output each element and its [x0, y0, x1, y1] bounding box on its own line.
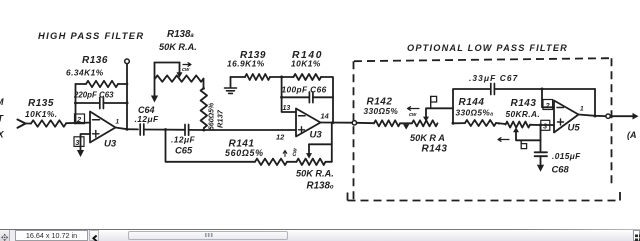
wire C67 row left — [453, 89, 490, 108]
pot R143a wiper arrow — [423, 117, 429, 122]
capacitor C68 plates — [535, 152, 547, 156]
node R139-R140 — [280, 76, 283, 79]
potentiometer R143a — [412, 120, 438, 126]
op-amp U5 triangle — [554, 101, 579, 133]
scrollbar thumb — [128, 231, 288, 241]
svg-text:16.9K1%: 16.9K1% — [227, 59, 265, 69]
svg-text:50K R.A.: 50K R.A. — [296, 169, 334, 179]
svg-text:13: 13 — [283, 105, 291, 112]
dashed box bottom-left corner — [347, 193, 349, 201]
svg-text:330Ω5%: 330Ω5% — [364, 106, 399, 116]
wire C68 to ground — [540, 156, 542, 164]
resistor R136 — [86, 81, 118, 87]
thumb grip — [205, 233, 214, 238]
wire R143b to pin3 — [530, 124, 554, 126]
U3a plus sign — [93, 131, 100, 138]
output node circle LPF — [606, 114, 610, 118]
wire feedback right rail — [126, 64, 128, 130]
svg-text:.12μF: .12μF — [171, 135, 195, 145]
wire C63 right — [103, 102, 127, 104]
pot R138a bracket — [155, 62, 180, 64]
svg-text:R143: R143 — [511, 98, 537, 109]
pot R143b wiper stem+bracket — [516, 132, 541, 140]
wire R135 to U3 pin2 — [66, 122, 90, 125]
svg-text:1: 1 — [580, 106, 584, 113]
wire U3a output — [116, 128, 139, 130]
node after C64 — [164, 128, 167, 131]
capacitor C64 plates — [140, 124, 144, 135]
resistor R141 — [255, 159, 287, 165]
wire C65 to R137 node — [189, 129, 204, 131]
node C63 left — [74, 102, 77, 105]
wire node to U3b plus input — [204, 129, 296, 131]
wire R140 right and down rail — [321, 77, 333, 123]
open terminal circle — [125, 59, 130, 64]
ground arrow C68 — [537, 165, 544, 172]
pin 3 box — [74, 137, 84, 147]
potentiometer R138b — [297, 159, 326, 165]
wire C66 left — [282, 96, 310, 98]
potentiometer R143b — [506, 122, 531, 128]
svg-text:.12μF: .12μF — [135, 114, 159, 124]
svg-text:100pF C66: 100pF C66 — [282, 85, 327, 95]
pot R138a right rail — [203, 79, 205, 88]
U5 pin 3 box — [541, 120, 550, 130]
cw arrow R138a — [183, 63, 191, 67]
pot R143b wiper arrow — [513, 127, 519, 132]
wire node to C65 — [166, 129, 186, 131]
wire pin3 rail to C68 — [540, 125, 542, 152]
wire C67 row right — [494, 88, 595, 90]
resistor R137 vertical — [201, 88, 207, 128]
pot R138b wiper stem — [308, 144, 310, 153]
wire R136 row right — [118, 83, 127, 85]
svg-text:T: T — [0, 114, 5, 124]
svg-text:OPTIONAL LOW PASS FILTER: OPTIONAL LOW PASS FILTER — [407, 43, 568, 53]
svg-text:2: 2 — [545, 101, 551, 110]
svg-text:.015μF: .015μF — [552, 151, 581, 161]
svg-text:220pF C63: 220pF C63 — [73, 91, 114, 100]
svg-text:X: X — [0, 130, 5, 140]
svg-text:12: 12 — [276, 133, 285, 142]
wire pin2 drop — [542, 89, 554, 107]
pin 2 box — [75, 114, 85, 124]
wire C64 to node — [144, 129, 166, 131]
wire input to R135 — [26, 123, 32, 125]
svg-text:M: M — [0, 97, 4, 107]
node pin3 rail — [539, 124, 542, 127]
wire C66 right — [313, 96, 333, 98]
wire left rail to pin13 — [282, 77, 296, 112]
node C67 pin2 tap — [541, 88, 544, 91]
input terminal chevron — [18, 120, 26, 128]
wire bottom loop down-left — [166, 130, 256, 162]
node U3b output feedback — [331, 121, 334, 124]
svg-text:3: 3 — [75, 138, 80, 147]
pot R138a left rail — [154, 63, 156, 96]
node C63 right — [126, 102, 129, 105]
capacitor C63 plates — [100, 98, 104, 109]
ground bars R139 — [225, 88, 237, 93]
wire C63 left — [76, 102, 100, 104]
node R137 top — [202, 87, 205, 90]
dashed box right border — [611, 58, 613, 188]
potentiometer R138a — [155, 75, 204, 81]
output node circle HPF — [352, 121, 356, 125]
node R137 bottom — [202, 129, 205, 132]
scrollbar track — [99, 230, 632, 241]
wire R142 to pot R143a — [400, 122, 412, 124]
ground arrow U3a pin3 — [77, 150, 84, 157]
wire U3b output — [321, 122, 353, 124]
svg-text:330Ω5%a: 330Ω5%a — [456, 108, 494, 118]
pot R143a wiper stem+bracket — [426, 108, 453, 123]
svg-text:U3: U3 — [104, 139, 117, 150]
wire R136 row left — [76, 83, 87, 85]
wire R141 to pot — [287, 161, 297, 163]
test point flag R143a — [431, 96, 437, 102]
wire U5 output — [579, 115, 606, 117]
pot R138a wiper arrow — [177, 72, 183, 78]
node R136 right — [126, 83, 129, 86]
test point flag stem R143a — [430, 97, 432, 109]
dashed box top border — [354, 58, 610, 61]
wire pot to right rail — [326, 161, 332, 163]
pot R138b wiper arrow — [306, 153, 312, 159]
page size readout — [15, 230, 88, 241]
ground stem R139 — [230, 77, 232, 88]
node R144-R143b — [498, 122, 500, 124]
svg-text:R144: R144 — [459, 97, 485, 108]
svg-text:14: 14 — [321, 112, 329, 121]
op-amp U3 second section triangle — [296, 109, 321, 137]
node C67 left rail bottom — [452, 122, 455, 125]
svg-text:2: 2 — [76, 115, 82, 124]
svg-text:R138a: R138a — [167, 29, 194, 40]
resistor R135 — [31, 120, 66, 126]
svg-text:HIGH PASS FILTER: HIGH PASS FILTER — [38, 30, 144, 41]
wire C67 right rail — [594, 89, 596, 116]
svg-text:50K R.A.: 50K R.A. — [159, 42, 197, 52]
svg-text:(A: (A — [627, 130, 637, 140]
svg-text:cw: cw — [182, 67, 190, 73]
output arrowhead — [633, 113, 639, 120]
svg-text:cw: cw — [292, 148, 299, 157]
svg-text:cw: cw — [409, 112, 417, 118]
feedback rail R138b — [331, 123, 333, 162]
node U5 output — [594, 115, 597, 118]
svg-text:50K R A: 50K R A — [410, 133, 445, 143]
svg-text:10K1%: 10K1% — [291, 59, 321, 69]
cw arrow R143b — [498, 138, 509, 142]
svg-text:560Ω5%: 560Ω5% — [209, 102, 216, 130]
svg-text:C68: C68 — [552, 164, 570, 175]
svg-text:10K1%.: 10K1%. — [25, 109, 58, 119]
svg-text:1: 1 — [116, 119, 120, 126]
svg-text:3: 3 — [543, 122, 548, 131]
U3b minus sign — [299, 115, 306, 117]
svg-text:560Ω5%: 560Ω5% — [225, 148, 264, 158]
wire output arrow shaft — [610, 115, 632, 117]
pan tool button — [0, 230, 10, 241]
svg-text:R143: R143 — [422, 144, 448, 155]
svg-text:.33μF C67: .33μF C67 — [469, 73, 518, 83]
svg-text:R135: R135 — [28, 98, 54, 109]
dashed box bottom border — [348, 200, 621, 202]
wire ground to R139 — [231, 76, 246, 78]
U3a minus sign — [93, 119, 100, 121]
U5 plus sign — [558, 119, 564, 125]
wire pot to R144 — [453, 122, 465, 124]
test point flag stem R143b — [520, 140, 522, 143]
svg-text:R138o: R138o — [307, 181, 334, 192]
svg-text:R137: R137 — [216, 109, 225, 128]
resistor R142 — [374, 120, 400, 126]
svg-text:U3: U3 — [310, 130, 323, 141]
pot R138b bracket — [309, 143, 332, 145]
viewer status/scroll bar — [0, 229, 640, 230]
resistor R144 — [465, 120, 496, 126]
wire R144 to R143b — [496, 123, 506, 124]
dashed box bottom-right corner — [619, 192, 621, 201]
ground arrow R138a — [151, 96, 158, 103]
test point flag R143b — [521, 144, 526, 149]
svg-text:6.34K1%: 6.34K1% — [66, 68, 104, 78]
pot R143a end-tie arrow — [403, 124, 409, 130]
node C66 left — [280, 96, 283, 99]
svg-text:C65: C65 — [175, 145, 193, 156]
resistor R139 — [245, 74, 270, 80]
svg-text:R136: R136 — [82, 55, 108, 66]
op-amp U3 first section triangle — [90, 112, 116, 143]
wire HPF out to R142 — [357, 122, 374, 124]
U5 pin 2 box — [543, 100, 553, 110]
node U3a output — [126, 128, 129, 131]
bottom-right partial icon — [633, 230, 640, 241]
resistor R140 — [294, 74, 322, 80]
svg-text:50KR.A.: 50KR.A. — [506, 109, 541, 119]
cw arrow R143a — [408, 107, 420, 111]
wire node to R140 — [282, 76, 294, 78]
dashed box left border — [353, 61, 355, 200]
node U3a inverting input — [74, 121, 77, 124]
svg-text:U5: U5 — [568, 123, 581, 134]
wire feedback left rail — [75, 84, 77, 123]
pot R138a wiper stem — [179, 63, 181, 73]
cw arrow R138b — [283, 151, 287, 157]
U3b plus sign — [299, 127, 305, 133]
U5 minus sign — [557, 107, 564, 109]
capacitor C67 plates — [491, 84, 495, 95]
scroll left button — [89, 230, 99, 241]
capacitor C65 plates — [185, 125, 189, 136]
wire R139 to node — [270, 76, 282, 78]
U3a pin3 wire to ground — [81, 134, 91, 150]
capacitor C66 plates — [309, 92, 313, 103]
